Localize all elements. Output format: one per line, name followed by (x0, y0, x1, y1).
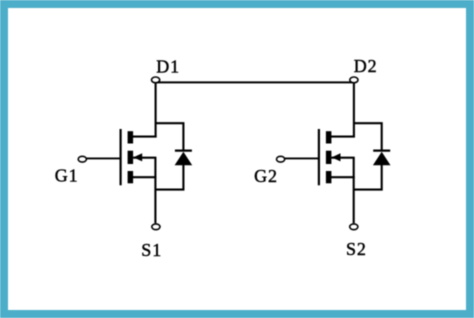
svg-text:S2: S2 (346, 239, 367, 259)
wire M2 diode bottom branch (354, 164, 382, 190)
wire M1 drain vertical (155, 83, 157, 137)
wire M2 gate lead (284, 157, 319, 159)
wire M2 source vertical (353, 158, 355, 224)
terminal G1 (78, 156, 86, 162)
svg-text:D2: D2 (354, 56, 378, 76)
wire M2 diode top branch (354, 123, 382, 151)
svg-text:S1: S1 (141, 240, 162, 260)
wire M1 source lead (131, 176, 156, 178)
M2 source channel bar (326, 171, 332, 183)
M1 diode cathode bar (175, 150, 192, 152)
terminal S2 (350, 224, 358, 230)
M2 diode triangle (373, 152, 391, 165)
M2 body arrow (332, 153, 341, 161)
wire M2 body lead (331, 157, 354, 159)
terminal D1 (152, 77, 160, 83)
transistor M1 (left N-MOSFET) (86, 83, 157, 223)
M1 diode triangle (175, 152, 193, 165)
wire M2 drain lead (329, 136, 355, 138)
svg-text:G2: G2 (254, 166, 278, 186)
wire M1 drain lead (131, 136, 157, 138)
M1 drain channel bar (128, 131, 134, 143)
M2 gate line (318, 129, 320, 185)
body diode of M1 (155, 123, 192, 189)
wire M1 diode top branch (156, 123, 184, 151)
wire M2 source lead (329, 176, 354, 178)
wire M1 source vertical (154, 158, 156, 224)
M1 gate line (119, 129, 121, 185)
body diode of M2 (354, 123, 391, 189)
terminal S1 (152, 224, 160, 230)
M1 body arrow (133, 153, 142, 161)
wire M1 diode bottom branch (155, 164, 183, 190)
transistor M2 (right N-MOSFET) (284, 83, 355, 223)
M2 diode cathode bar (373, 150, 390, 152)
M1 body channel bar (128, 151, 134, 164)
M2 body channel bar (326, 151, 332, 164)
M2 drain channel bar (326, 131, 332, 143)
wire M1 body lead (133, 157, 156, 159)
wire M2 drain vertical (353, 83, 355, 137)
wire D1-D2 top interconnect (157, 81, 353, 83)
M1 source channel bar (128, 171, 134, 183)
svg-text:D1: D1 (156, 56, 180, 76)
wire M1 gate lead (86, 157, 121, 159)
terminal D2 (350, 77, 358, 83)
terminal G2 (277, 156, 285, 162)
svg-text:G1: G1 (55, 166, 79, 186)
